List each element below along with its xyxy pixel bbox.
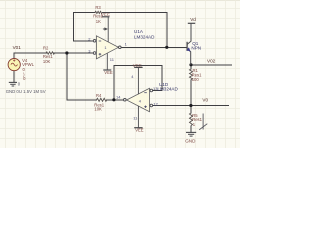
svg-text:R2: R2: [43, 45, 49, 50]
svg-text:Vd: Vd: [190, 17, 196, 22]
svg-text:V01: V01: [13, 45, 22, 50]
svg-text:VCC: VCC: [133, 63, 142, 68]
svg-text:LM324AD: LM324AD: [134, 34, 155, 39]
svg-text:LM324AD: LM324AD: [157, 87, 178, 92]
svg-text:VEE: VEE: [135, 128, 144, 133]
svg-text:R4: R4: [96, 93, 102, 98]
svg-text:GND 0U 1.5V 1M 5V: GND 0U 1.5V 1M 5V: [6, 89, 46, 94]
svg-text:NPN: NPN: [191, 46, 201, 51]
svg-text:R3: R3: [95, 5, 101, 10]
svg-text:V02: V02: [207, 58, 216, 63]
svg-text:12: 12: [153, 101, 158, 106]
svg-text:10K: 10K: [94, 107, 102, 112]
svg-text:10K: 10K: [43, 59, 51, 64]
svg-text:VEE: VEE: [104, 70, 113, 75]
svg-text:100: 100: [192, 77, 200, 82]
svg-text:VCC: VCC: [101, 12, 110, 17]
svg-text:1K: 1K: [96, 19, 101, 24]
svg-text:GND: GND: [185, 139, 196, 144]
svg-text:V0: V0: [202, 98, 208, 103]
svg-text:13: 13: [153, 86, 158, 91]
svg-text:14: 14: [116, 95, 121, 100]
